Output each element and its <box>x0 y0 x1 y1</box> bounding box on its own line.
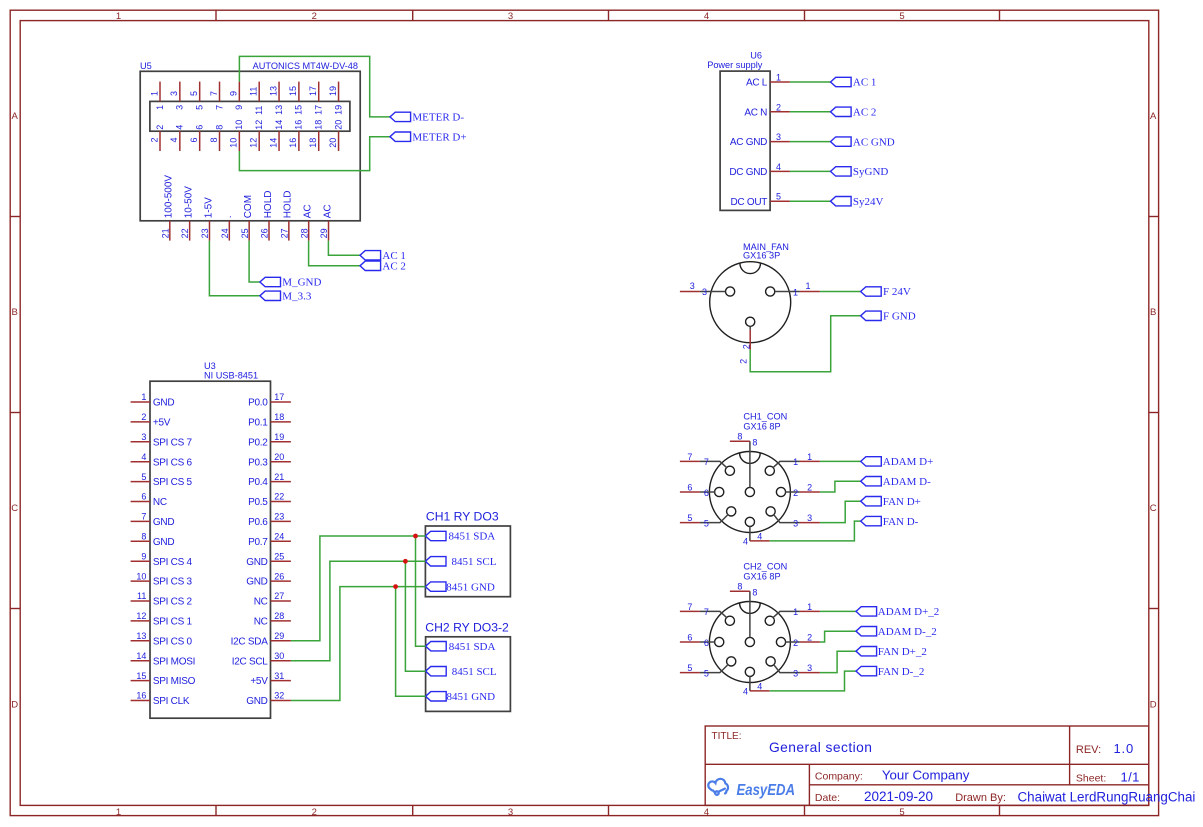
net flag ADAM D-_2 <box>856 626 937 638</box>
IC U3 NI USB-8451 <box>150 361 271 718</box>
svg-text:7: 7 <box>687 602 692 612</box>
net flag ADAM D+ <box>861 456 934 468</box>
svg-text:2: 2 <box>793 638 798 648</box>
CH1_CON pin 2 <box>776 483 820 498</box>
svg-text:GX16 8P: GX16 8P <box>743 572 780 582</box>
U3 pin 16 SPI CLK <box>131 691 190 707</box>
svg-text:I2C SDA: I2C SDA <box>231 636 269 647</box>
svg-text:SPI CS 2: SPI CS 2 <box>153 597 193 608</box>
U3 pin 32 GND <box>246 691 291 707</box>
port 8451 SCL (CH2) <box>426 666 497 678</box>
svg-text:C: C <box>1150 503 1157 514</box>
connector MAIN_FAN GX16 3P <box>680 242 820 364</box>
U6 pin 2 AC N <box>744 102 790 118</box>
svg-text:14: 14 <box>268 138 278 148</box>
U5 pin 4 <box>169 125 185 151</box>
svg-text:AC: AC <box>302 204 313 218</box>
CH1_CON pin 1 <box>765 452 820 476</box>
svg-text:27: 27 <box>279 228 289 238</box>
svg-text:7: 7 <box>687 452 692 462</box>
U3 pin 4 SPI CS 6 <box>131 452 193 468</box>
U5 pin 13 <box>268 82 284 115</box>
svg-text:4: 4 <box>141 452 146 462</box>
svg-text:AC 2: AC 2 <box>853 107 877 119</box>
svg-text:6: 6 <box>704 638 709 648</box>
CH2_CON pin 6 <box>680 633 724 648</box>
svg-text:A: A <box>12 111 19 122</box>
svg-text:1: 1 <box>807 602 812 612</box>
net flag ADAM D- <box>861 476 931 488</box>
svg-text:3: 3 <box>793 518 798 528</box>
CH1_CON pin 7 <box>680 452 735 476</box>
svg-text:P0.6: P0.6 <box>248 517 268 528</box>
U3 pin 17 P0.0 <box>248 392 291 408</box>
CH1_CON pin 8 <box>730 432 758 497</box>
svg-text:ADAM D-_2: ADAM D-_2 <box>878 626 937 638</box>
svg-text:COM: COM <box>243 195 254 218</box>
svg-text:DC OUT: DC OUT <box>730 197 767 208</box>
svg-text:1: 1 <box>793 287 798 297</box>
svg-text:GX16 3P: GX16 3P <box>743 251 780 261</box>
U5 pin 17 <box>308 82 324 115</box>
svg-text:P0.5: P0.5 <box>248 497 268 508</box>
svg-text:9: 9 <box>141 551 146 561</box>
U3 pin 26 GND <box>246 571 291 587</box>
svg-text:3: 3 <box>807 663 812 673</box>
svg-text:12: 12 <box>249 138 259 148</box>
svg-text:18: 18 <box>308 138 318 148</box>
CH1_CON pin 4 <box>743 517 770 546</box>
svg-text:13: 13 <box>136 631 146 641</box>
CH2_CON pin 4 <box>743 667 770 696</box>
U3 pin 20 P0.3 <box>248 452 291 468</box>
svg-text:TITLE:: TITLE: <box>712 731 742 742</box>
svg-text:2: 2 <box>141 412 146 422</box>
U5 pin 3 <box>169 82 185 110</box>
wire U6 pin 5 to Sy24V <box>790 200 831 202</box>
svg-text:16: 16 <box>136 691 146 701</box>
junction SDA <box>413 534 418 539</box>
svg-text:FAN D-: FAN D- <box>883 516 919 528</box>
svg-text:4: 4 <box>757 532 762 542</box>
svg-text:3: 3 <box>702 287 707 297</box>
svg-text:15: 15 <box>294 105 304 115</box>
wire MAIN_FAN pin1 to F 24V <box>820 291 861 293</box>
svg-text:GND: GND <box>246 577 267 588</box>
svg-text:M_3.3: M_3.3 <box>282 291 312 303</box>
port 8451 SCL (CH1) <box>425 556 496 568</box>
svg-text:1: 1 <box>149 91 159 96</box>
svg-text:Drawn By:: Drawn By: <box>955 792 1006 804</box>
svg-text:22: 22 <box>274 492 284 502</box>
U5 pin 23 1-5V <box>200 197 214 241</box>
wire CH1_CON pin2 to ADAM D- <box>820 481 861 492</box>
svg-text:29: 29 <box>274 631 284 641</box>
svg-text:REV:: REV: <box>1076 744 1101 756</box>
svg-text:FAN D+_2: FAN D+_2 <box>878 646 927 658</box>
svg-text:1: 1 <box>805 281 810 291</box>
svg-text:2: 2 <box>807 633 812 643</box>
svg-text:14: 14 <box>274 120 284 130</box>
svg-text:C: C <box>11 503 18 514</box>
block CH1 RY DO3 <box>425 510 510 597</box>
net flag AC GND <box>831 136 895 148</box>
svg-text:DC GND: DC GND <box>729 167 767 178</box>
svg-text:6: 6 <box>687 633 692 643</box>
svg-text:11: 11 <box>254 106 264 115</box>
svg-text:B: B <box>12 307 18 318</box>
svg-text:3: 3 <box>793 668 798 678</box>
port 8451 SDA (CH2) <box>426 641 496 653</box>
port 8451 GND (CH1) <box>425 581 495 593</box>
svg-text:25: 25 <box>240 228 250 238</box>
svg-text:A: A <box>1150 111 1157 122</box>
svg-text:16: 16 <box>294 120 304 130</box>
svg-text:NC: NC <box>254 597 268 608</box>
U3 pin 30 I2C SCL <box>232 651 291 667</box>
wire I2C SDA U3 pin29 to CH1 8451 SDA <box>291 536 426 641</box>
EasyEDA logo <box>708 779 795 799</box>
svg-text:25: 25 <box>274 551 284 561</box>
svg-text:23: 23 <box>200 228 210 238</box>
svg-text:20: 20 <box>333 120 343 130</box>
CH2_CON pin 2 <box>776 633 820 648</box>
U5 pin 19 <box>328 82 344 115</box>
MAIN_FAN pin 1 <box>766 281 820 297</box>
net flag FAN D- <box>861 516 919 528</box>
svg-text:14: 14 <box>136 651 146 661</box>
svg-text:5: 5 <box>189 91 199 96</box>
svg-text:2: 2 <box>807 483 812 493</box>
U3 pin 23 P0.6 <box>248 512 291 528</box>
U3 pin 18 P0.1 <box>248 412 291 428</box>
U5 pin 16 <box>288 120 304 151</box>
svg-text:6: 6 <box>141 492 146 502</box>
net flag ADAM D+_2 <box>856 606 939 618</box>
U3 pin 29 I2C SDA <box>231 631 291 647</box>
svg-text:CH1_CON: CH1_CON <box>743 412 787 422</box>
U3 pin 14 SPI MOSI <box>131 651 196 667</box>
svg-text:19: 19 <box>328 86 338 96</box>
connector CH2_CON GX16 8P <box>680 562 820 697</box>
svg-text:8451 GND: 8451 GND <box>446 581 495 593</box>
svg-text:AC GND: AC GND <box>853 136 895 148</box>
svg-text:Chaiwat LerdRungRuangChai: Chaiwat LerdRungRuangChai <box>1018 790 1196 805</box>
svg-text:D: D <box>1150 700 1157 711</box>
svg-text:1: 1 <box>116 807 121 818</box>
wire GND U3 pin32 to CH1 8451 GND <box>291 587 426 701</box>
net flag F 24V <box>861 286 911 298</box>
svg-text:6: 6 <box>687 483 692 493</box>
U3 pin 9 SPI CS 4 <box>131 551 193 567</box>
svg-text:HOLD: HOLD <box>283 191 294 219</box>
svg-text:12: 12 <box>136 611 146 621</box>
wire branch SCL to CH2 8451 SCL <box>405 561 425 671</box>
svg-text:SPI MOSI: SPI MOSI <box>153 656 195 667</box>
U5 pin 25 COM <box>240 195 254 241</box>
svg-text:26: 26 <box>274 571 284 581</box>
svg-text:7: 7 <box>209 91 219 96</box>
wire CH1_CON pin4 to FAN D- <box>770 521 861 541</box>
svg-text:1/1: 1/1 <box>1121 769 1140 784</box>
svg-text:8: 8 <box>141 532 146 542</box>
svg-text:ADAM D+_2: ADAM D+_2 <box>878 606 940 618</box>
wire U5 pin25 to M_GND <box>249 241 260 282</box>
U3 pin 31 +5V <box>250 671 291 687</box>
svg-text:8: 8 <box>209 138 219 143</box>
svg-text:4: 4 <box>743 537 748 547</box>
svg-text:4: 4 <box>704 807 709 818</box>
svg-text:1: 1 <box>793 457 798 467</box>
svg-text:8451 SCL: 8451 SCL <box>452 666 497 678</box>
svg-text:8451 SCL: 8451 SCL <box>452 556 497 568</box>
wire U5 pin10 to METER D+ <box>239 137 390 171</box>
U5 pin 1 <box>149 82 165 110</box>
svg-text:9: 9 <box>229 91 239 96</box>
svg-text:4: 4 <box>704 11 709 22</box>
svg-text:GX16 8P: GX16 8P <box>743 422 780 432</box>
svg-text:D: D <box>11 700 18 711</box>
U5 pin 2 <box>149 125 165 151</box>
wire CH2_CON pin3 to FAN D+_2 <box>820 651 856 672</box>
U3 pin 27 NC <box>254 591 291 607</box>
U5 pin 24 . <box>220 216 234 241</box>
svg-text:Power supply: Power supply <box>707 60 763 70</box>
svg-text:8451 GND: 8451 GND <box>447 691 496 703</box>
U5 pin 6 <box>189 125 205 151</box>
net flag F GND <box>861 311 916 323</box>
CH2_CON pin 5 <box>680 657 736 679</box>
svg-text:F GND: F GND <box>883 311 916 323</box>
svg-text:P0.0: P0.0 <box>248 398 268 409</box>
U5 pin 10 <box>229 120 245 151</box>
net flag METER D- <box>390 112 464 124</box>
svg-text:3: 3 <box>175 105 185 110</box>
U5 pin 11 <box>249 82 265 115</box>
CH2_CON pin 3 <box>766 657 820 679</box>
MAIN_FAN pin 2 <box>738 317 754 364</box>
MAIN_FAN pin 3 <box>680 281 735 297</box>
svg-text:AUTONICS MT4W-DV-48: AUTONICS MT4W-DV-48 <box>253 61 358 71</box>
U3 pin 3 SPI CS 7 <box>131 432 193 448</box>
junction SCL <box>403 559 408 564</box>
svg-text:I2C SCL: I2C SCL <box>232 656 269 667</box>
svg-text:9: 9 <box>234 105 244 110</box>
svg-text:ADAM D+: ADAM D+ <box>883 456 934 468</box>
svg-text:2: 2 <box>742 344 752 349</box>
svg-text:SPI CS 7: SPI CS 7 <box>153 437 193 448</box>
svg-text:100-500V: 100-500V <box>164 175 175 219</box>
junction GND <box>393 584 398 589</box>
U3 pin 10 SPI CS 3 <box>131 571 193 587</box>
svg-text:20: 20 <box>328 138 338 148</box>
svg-text:3: 3 <box>807 513 812 523</box>
U3 pin 2 +5V <box>131 412 171 428</box>
svg-text:Company:: Company: <box>815 770 863 782</box>
svg-text:U5: U5 <box>140 61 152 71</box>
svg-text:29: 29 <box>319 228 329 238</box>
svg-text:31: 31 <box>274 671 284 681</box>
U3 pin 19 P0.2 <box>248 432 291 448</box>
wire U6 pin 1 to AC 1 <box>790 81 831 83</box>
wire I2C SCL U3 pin30 to CH1 8451 SCL <box>291 561 426 660</box>
svg-text:5: 5 <box>899 11 904 22</box>
svg-text:1: 1 <box>776 73 781 83</box>
svg-text:GND: GND <box>153 398 174 409</box>
net flag M_GND <box>260 277 322 289</box>
svg-text:+5V: +5V <box>153 418 171 429</box>
svg-text:F 24V: F 24V <box>883 286 911 298</box>
svg-text:21: 21 <box>160 228 170 238</box>
U3 pin 13 SPI CS 0 <box>131 631 193 647</box>
svg-text:5: 5 <box>776 192 781 202</box>
svg-text:SPI CS 5: SPI CS 5 <box>153 477 193 488</box>
svg-text:SPI CLK: SPI CLK <box>153 696 190 707</box>
svg-text:Your Company: Your Company <box>882 768 970 783</box>
U3 pin 22 P0.5 <box>248 492 291 508</box>
net flag SyGND <box>831 166 889 178</box>
svg-text:23: 23 <box>274 512 284 522</box>
svg-text:HOLD: HOLD <box>263 191 274 219</box>
U5 pin 14 <box>268 120 284 151</box>
U5 pin 12 <box>249 120 265 151</box>
U3 pin 8 GND <box>131 532 175 548</box>
svg-text:6: 6 <box>189 138 199 143</box>
svg-text:1: 1 <box>116 11 121 22</box>
svg-text:19: 19 <box>274 432 284 442</box>
svg-text:2: 2 <box>776 102 781 112</box>
net flag M_3.3 <box>260 291 312 303</box>
U6 pin 5 DC OUT <box>730 192 789 208</box>
svg-text:4: 4 <box>743 687 748 697</box>
svg-text:P0.7: P0.7 <box>248 537 268 548</box>
net flag FAN D+ <box>861 496 921 508</box>
svg-text:28: 28 <box>299 228 309 238</box>
svg-text:7: 7 <box>704 607 709 617</box>
svg-text:15: 15 <box>288 86 298 96</box>
svg-text:AC: AC <box>322 204 333 218</box>
U5 pin 20 <box>328 120 344 151</box>
svg-text:3: 3 <box>141 432 146 442</box>
connector U5 AUTONICS MT4W-DV-48 <box>140 61 360 221</box>
U5 pin 28 AC <box>299 204 313 240</box>
svg-text:SyGND: SyGND <box>853 166 889 178</box>
wire U5 pin23 to M_3.3 <box>209 241 260 296</box>
svg-text:7: 7 <box>214 105 224 110</box>
svg-text:ADAM D-: ADAM D- <box>883 476 931 488</box>
U5 pin 15 <box>288 82 304 115</box>
svg-text:8451 SDA: 8451 SDA <box>449 531 496 543</box>
CH2_CON pin 1 <box>765 602 820 626</box>
U3 pin 12 SPI CS 1 <box>131 611 193 627</box>
U5 pin 5 <box>189 82 205 110</box>
svg-text:Date:: Date: <box>815 792 840 804</box>
wire U5 pin29 to AC 1 <box>328 241 360 256</box>
svg-text:SPI CS 3: SPI CS 3 <box>153 577 193 588</box>
svg-text:SPI CS 1: SPI CS 1 <box>153 617 193 628</box>
U3 pin 6 NC <box>131 492 167 508</box>
svg-text:30: 30 <box>274 651 284 661</box>
wire CH2_CON pin4 to FAN D-_2 <box>770 671 856 691</box>
U3 pin 24 P0.7 <box>248 532 291 548</box>
svg-text:4: 4 <box>169 138 179 143</box>
svg-text:11: 11 <box>249 87 259 96</box>
U5 pin 27 HOLD <box>279 191 293 241</box>
svg-text:EasyEDA: EasyEDA <box>737 782 796 799</box>
port 8451 GND (CH2) <box>426 691 496 703</box>
svg-text:3: 3 <box>776 132 781 142</box>
svg-text:2: 2 <box>793 488 798 498</box>
svg-text:7: 7 <box>141 512 146 522</box>
svg-text:22: 22 <box>180 228 190 238</box>
U6 pin 3 AC GND <box>730 132 790 148</box>
svg-text:GND: GND <box>153 537 174 548</box>
svg-text:P0.4: P0.4 <box>248 477 268 488</box>
U3 pin 1 GND <box>131 392 175 408</box>
svg-text:19: 19 <box>333 105 343 115</box>
svg-text:10: 10 <box>234 120 244 130</box>
svg-text:SPI CS 6: SPI CS 6 <box>153 457 193 468</box>
svg-text:5: 5 <box>141 472 146 482</box>
svg-text:1: 1 <box>807 452 812 462</box>
svg-text:4: 4 <box>175 125 185 130</box>
svg-text:10: 10 <box>229 138 239 148</box>
svg-text:13: 13 <box>268 86 278 96</box>
net flag AC 2 <box>831 107 877 119</box>
svg-text:SPI MISO: SPI MISO <box>153 676 196 687</box>
svg-text:CH2_CON: CH2_CON <box>743 562 787 572</box>
svg-text:3: 3 <box>508 11 513 22</box>
svg-text:METER D-: METER D- <box>412 112 464 124</box>
svg-text:5: 5 <box>704 668 709 678</box>
svg-text:AC L: AC L <box>746 78 768 89</box>
svg-text:GND: GND <box>153 517 174 528</box>
svg-text:CH1 RY DO3: CH1 RY DO3 <box>426 510 499 524</box>
svg-text:4: 4 <box>757 682 762 692</box>
wire CH1_CON pin3 to FAN D+ <box>820 501 861 522</box>
net flag Sy24V <box>831 196 884 208</box>
wire branch SDA to CH2 8451 SDA <box>416 536 426 646</box>
wire CH1_CON pin1 to ADAM D+ <box>820 460 861 462</box>
svg-text:26: 26 <box>260 228 270 238</box>
svg-text:GND: GND <box>246 557 267 568</box>
svg-text:27: 27 <box>274 591 284 601</box>
svg-text:24: 24 <box>220 228 230 238</box>
block CH2 RY DO3-2 <box>425 621 510 712</box>
svg-text:2: 2 <box>312 807 317 818</box>
CH1_CON pin 3 <box>766 507 820 529</box>
U3 pin 28 NC <box>254 611 291 627</box>
svg-text:SPI CS 0: SPI CS 0 <box>153 636 193 647</box>
svg-text:.: . <box>223 216 234 219</box>
svg-text:AC GND: AC GND <box>730 137 767 148</box>
svg-text:3: 3 <box>508 807 513 818</box>
svg-text:P0.3: P0.3 <box>248 457 268 468</box>
U5 pin 9 <box>229 82 245 110</box>
svg-text:1: 1 <box>793 607 798 617</box>
U5 pin 21 100-500V <box>160 175 174 241</box>
svg-text:Sheet:: Sheet: <box>1076 772 1106 784</box>
svg-text:17: 17 <box>308 86 318 96</box>
wire CH2_CON pin2 to ADAM D-_2 <box>820 631 856 642</box>
U3 pin 21 P0.4 <box>248 472 291 488</box>
svg-text:12: 12 <box>254 120 264 130</box>
wire U5 pin9 to METER D- <box>239 56 390 117</box>
wire branch GND to CH2 8451 GND <box>396 587 426 697</box>
svg-text:8: 8 <box>752 588 757 598</box>
wire U6 pin 3 to AC GND <box>790 141 831 143</box>
net flag AC 2 <box>360 261 406 273</box>
